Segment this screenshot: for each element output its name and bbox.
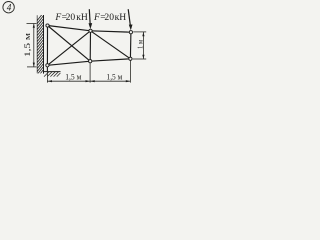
svg-text:1,5 м: 1,5 м (107, 71, 123, 81)
paper background (0, 0, 150, 90)
floor hatching (44, 72, 60, 77)
wall hatching (37, 13, 43, 78)
diagonal B-C (47, 31, 90, 66)
member B-E bottom chord left (47, 61, 90, 65)
floor line (44, 71, 61, 73)
right dimension line (142, 32, 144, 59)
svg-text:1,5 м: 1,5 м (23, 33, 32, 57)
joint D (129, 31, 132, 34)
left dimension arrowheads (33, 24, 35, 67)
joint E (89, 60, 92, 63)
right dimension extension lines (133, 32, 147, 59)
member A-C top chord left (48, 26, 91, 31)
joint G (129, 57, 132, 60)
svg-text:1,5 м: 1,5 м (65, 71, 82, 81)
svg-text:F=20кН: F=20кН (93, 12, 126, 23)
truss members (47, 26, 130, 72)
force F1 arrow (89, 9, 93, 29)
wall face line (43, 15, 45, 74)
left dimension extension lines (27, 24, 37, 67)
left dimension line (33, 24, 35, 67)
bottom dimension ticks (47, 61, 130, 83)
variant badge circle 4 (3, 2, 14, 13)
svg-text:1 м: 1 м (136, 40, 145, 49)
pin A (46, 24, 49, 27)
joint C (89, 29, 92, 32)
svg-text:F=20кН: F=20кН (54, 12, 87, 23)
member E-G bottom chord right (90, 59, 130, 61)
force F2 arrow (128, 9, 132, 30)
pin B (46, 64, 49, 67)
diagonal A-E (48, 26, 91, 62)
right dimension arrowheads (142, 32, 144, 59)
svg-text:4: 4 (7, 3, 12, 13)
bottom dimension arrowheads (48, 80, 131, 82)
member C-E middle vertical (89, 31, 91, 61)
diagonal C-G (91, 31, 131, 59)
bottom dimension line (47, 80, 130, 82)
member C-D top chord right (91, 31, 131, 32)
member A-B wall post (46, 26, 48, 72)
member D-G right vertical (129, 32, 132, 59)
